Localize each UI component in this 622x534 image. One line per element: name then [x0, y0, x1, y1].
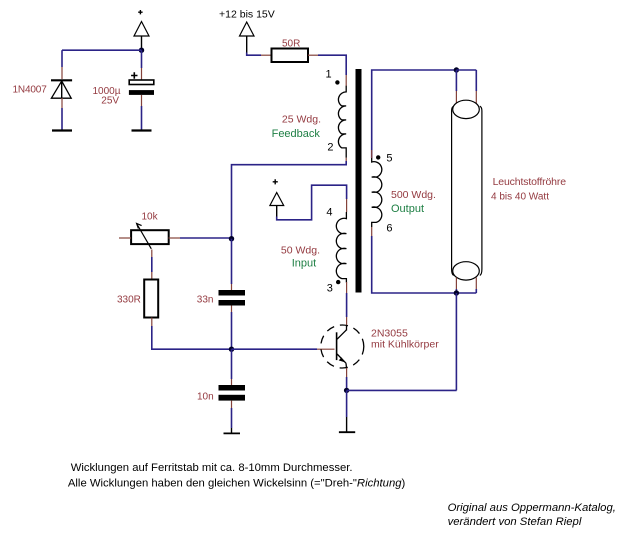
wire junction C to 10n [231, 349, 233, 385]
svg-text:4: 4 [326, 207, 332, 219]
pin 1 polarity dot [335, 80, 339, 84]
svg-text:33n: 33n [197, 295, 214, 306]
wire base (junction C to transistor) [232, 348, 335, 350]
wire tube bottom rail extension [456, 292, 476, 294]
svg-text:10n: 10n [197, 392, 214, 403]
potentiometer 10k [131, 224, 169, 249]
svg-text:2N3055: 2N3055 [371, 327, 408, 339]
wire emitter to junction F [346, 368, 348, 390]
svg-text:Input: Input [292, 258, 316, 270]
junction dot A (VCC1 node) [139, 48, 144, 53]
capacitor 1000u 25V (electrolytic) [129, 72, 154, 95]
svg-text:Alle Wicklungen haben den glei: Alle Wicklungen haben den gleichen Wicke… [68, 477, 406, 489]
pin 5 polarity dot [376, 155, 380, 159]
svg-text:330R: 330R [117, 295, 141, 306]
svg-text:Feedback: Feedback [272, 128, 321, 140]
diode 1N4007 [51, 80, 72, 98]
winding feedback 25 Wdg (pins 1-2) [338, 86, 346, 158]
transformer core [356, 69, 362, 293]
wire pot to rail [169, 237, 232, 239]
power symbol VCC1 (top left) [134, 10, 149, 49]
wire pot wiper to 330R [151, 250, 153, 280]
tube electrode top [453, 100, 480, 118]
svg-text:10k: 10k [142, 211, 159, 222]
resistor 50R [272, 49, 309, 63]
svg-text:Wicklungen auf Ferritstab mit: Wicklungen auf Ferritstab mit ca. 8-10mm… [71, 462, 353, 474]
svg-text:1N4007: 1N4007 [13, 84, 48, 95]
capacitor 10n [219, 385, 246, 401]
wire VCC2 to resistor 50R [247, 53, 272, 56]
wire pin 3 to collector [346, 282, 348, 326]
ground terminal (capacitor) [132, 129, 152, 131]
svg-text:6: 6 [386, 222, 392, 234]
svg-text:verändert von Stefan Riepl: verändert von Stefan Riepl [448, 516, 582, 528]
ground terminal (diode) [52, 129, 72, 131]
tube electrode bottom [453, 262, 480, 280]
wire pot left stub [119, 237, 131, 239]
wire 330R to junction C [152, 318, 232, 350]
wire 10n to ground [231, 401, 233, 434]
junction dot D (tube top) [454, 67, 459, 72]
junction dot B (pot/rail) [229, 236, 234, 241]
wire tube bottom to emitter node [455, 293, 457, 390]
capacitor 33n [219, 290, 246, 306]
svg-text:25V: 25V [101, 96, 119, 107]
svg-text:3: 3 [327, 282, 333, 294]
svg-text:5: 5 [386, 153, 392, 165]
resistor 330R [144, 280, 158, 318]
power symbol VCC3 [270, 179, 284, 217]
svg-text:50R: 50R [282, 38, 300, 49]
junction dot C (main node) [229, 347, 234, 352]
wire VCC1 horizontal [62, 49, 142, 51]
winding input 50 Wdg (pins 4-3) [336, 212, 346, 283]
fluorescent tube body [452, 106, 482, 275]
svg-text:Output: Output [391, 203, 424, 215]
svg-text:Original aus Oppermann-Katalog: Original aus Oppermann-Katalog, [448, 502, 616, 514]
wire 33n to junction C [231, 306, 233, 350]
svg-text:50 Wdg.: 50 Wdg. [281, 244, 320, 256]
ground terminal (10n) [224, 432, 241, 434]
transistor 2N3055 [321, 325, 364, 369]
wire pin2 to left rail [232, 158, 347, 239]
svg-text:2: 2 [327, 142, 333, 154]
wire 50R to pin1 [308, 55, 346, 86]
wire to capacitor 1000u [141, 50, 143, 79]
svg-text:1: 1 [326, 69, 332, 81]
pin 3 polarity dot [336, 280, 340, 284]
junction dot E (tube bottom) [454, 290, 459, 295]
junction dot F (emitter node) [344, 388, 349, 393]
svg-text:mit Kühlkörper: mit Kühlkörper [371, 339, 439, 351]
winding output 500 Wdg (pins 5-6) [372, 158, 382, 227]
wire output bottom (pin 6 to tube bottom) [372, 227, 457, 293]
wire VCC3 to pin 4 [277, 185, 347, 220]
wire diode to ground [61, 98, 63, 131]
svg-text:25 Wdg.: 25 Wdg. [282, 114, 321, 126]
wire tube bottom connections [456, 278, 476, 294]
wire capacitor to ground [141, 95, 143, 131]
wire rail through 33n [231, 239, 233, 290]
svg-text:Leuchtstoffröhre: Leuchtstoffröhre [493, 176, 567, 188]
wire output top (pin 5 to tube top) [372, 70, 457, 158]
wire emitter to ground [346, 390, 348, 432]
wire to diode [61, 50, 63, 79]
svg-text:500 Wdg.: 500 Wdg. [391, 189, 436, 201]
wire tube top connections [456, 70, 476, 103]
power symbol VCC2 [240, 22, 255, 53]
svg-text:4 bis 40 Watt: 4 bis 40 Watt [491, 191, 549, 202]
wire emitter node to tube rail [347, 389, 457, 391]
svg-text:+12 bis 15V: +12 bis 15V [219, 8, 275, 20]
ground terminal (emitter) [339, 431, 355, 433]
